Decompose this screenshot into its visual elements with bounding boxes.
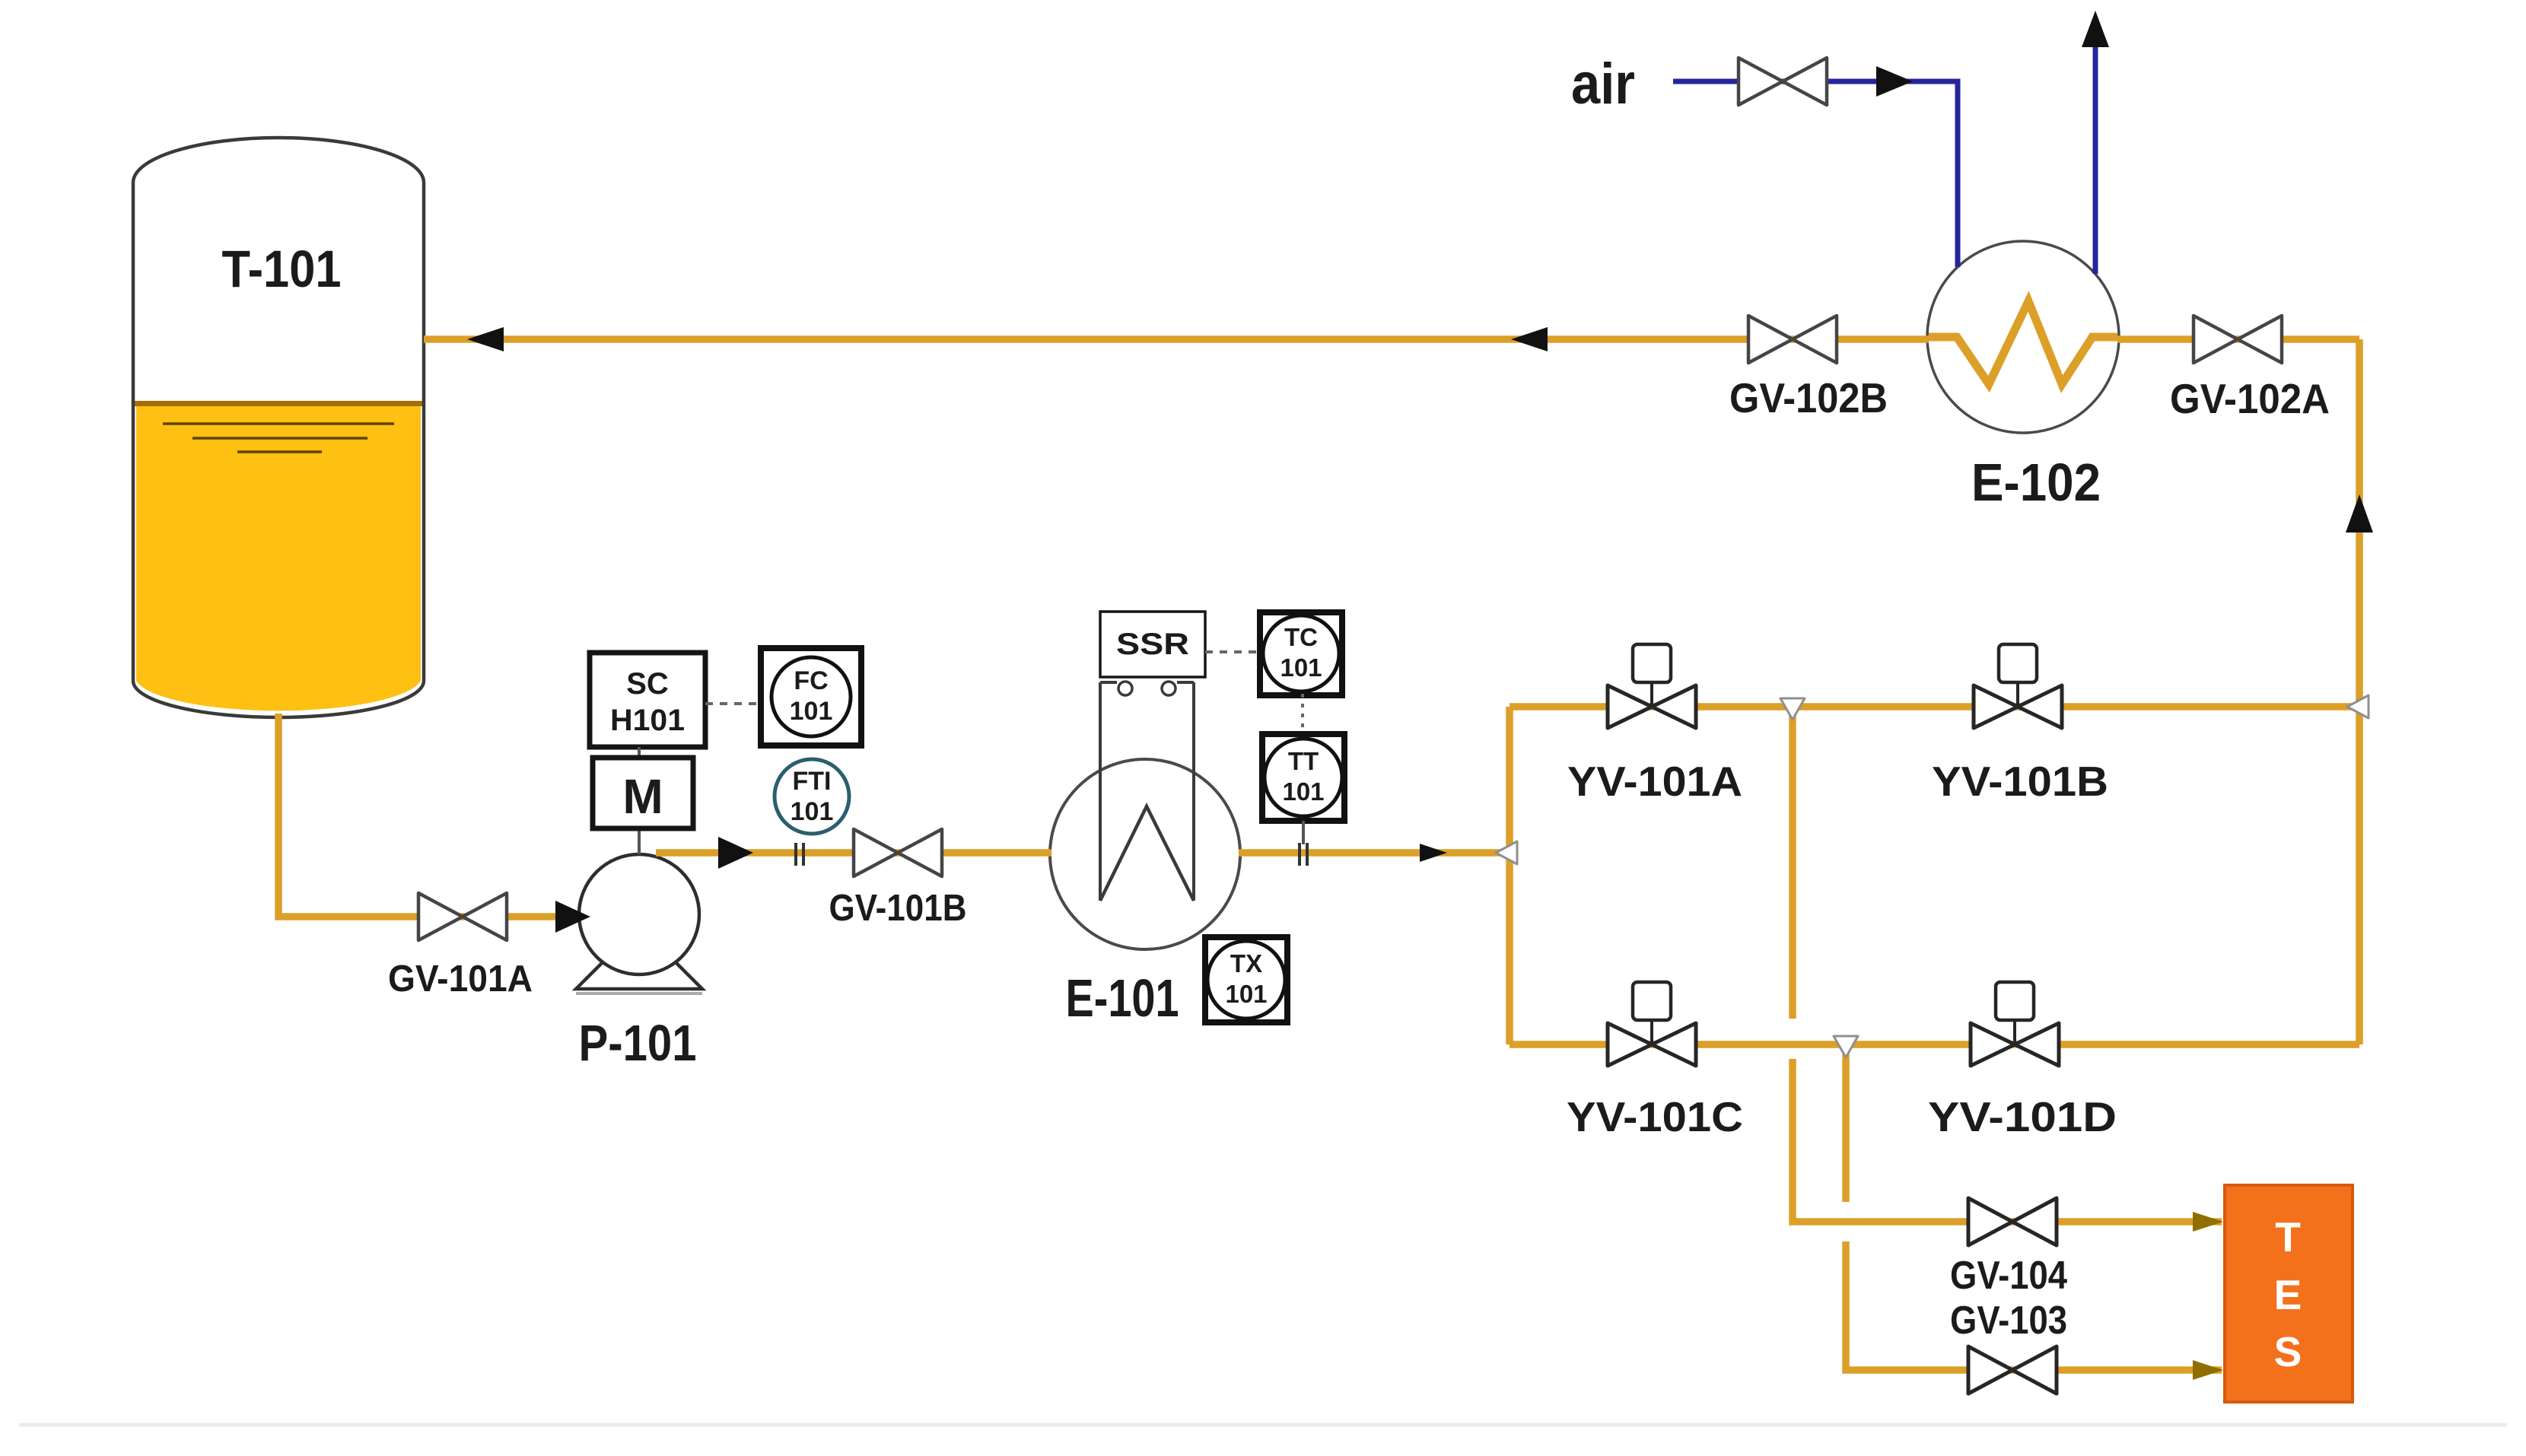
svg-text:FC: FC: [794, 666, 828, 695]
instrument tap under TT: [1298, 843, 1301, 866]
wire: lower branch to right header: [1510, 1041, 2359, 1048]
E-102 coil: [1929, 301, 2117, 384]
svg-text:YV-101B: YV-101B: [1932, 758, 2108, 805]
svg-text:GV-104: GV-104: [1950, 1254, 2067, 1298]
valve GV-103: [1950, 1299, 2067, 1394]
page separator line: [19, 1423, 2507, 1427]
instrument FTI 101: [775, 759, 849, 834]
arrow into TES upper: [2193, 1212, 2223, 1232]
svg-text:TT: TT: [1288, 747, 1319, 775]
pump P-101: [576, 854, 702, 1072]
instrument FC 101: [761, 648, 861, 745]
controller box SSR: [1100, 612, 1205, 677]
svg-text:YV-101A: YV-101A: [1567, 758, 1742, 805]
svg-text:YV-101D: YV-101D: [1928, 1093, 2117, 1140]
svg-text:SC: SC: [626, 667, 669, 701]
air inlet line: [1673, 81, 1958, 267]
svg-text:E-101: E-101: [1066, 968, 1179, 1028]
wire: SSR to TC dashed: [1205, 650, 1261, 653]
svg-text:E: E: [2274, 1271, 2302, 1318]
controller box SC H101: [590, 653, 705, 747]
svg-text:101: 101: [1280, 653, 1322, 682]
vent line from E-102: [2093, 42, 2098, 274]
wire: upper branch to right header: [1510, 703, 2359, 711]
wire: E-101 outlet to junction: [1239, 849, 1505, 857]
svg-text:T-101: T-101: [222, 240, 342, 298]
svg-text:FTI: FTI: [793, 767, 832, 796]
valve GV-102B: [1729, 316, 1888, 421]
svg-text:T: T: [2275, 1213, 2301, 1260]
instrument TC 101: [1260, 612, 1342, 695]
svg-text:GV-101A: GV-101A: [388, 958, 533, 1000]
svg-text:P-101: P-101: [579, 1015, 697, 1072]
valve GV-104: [1950, 1198, 2067, 1298]
wire: SC to FC dashed: [705, 702, 761, 705]
arrow into TES lower: [2193, 1360, 2223, 1380]
wire: TC to TT dotted: [1301, 694, 1304, 734]
TES storage block: [2225, 1185, 2353, 1402]
instrument tap under FTI: [794, 843, 797, 866]
svg-text:GV-102A: GV-102A: [2170, 375, 2330, 422]
arrow up right header: [2346, 494, 2373, 532]
wire: pump outlet to E-101: [656, 849, 1051, 857]
junction node J4: [1834, 1036, 1858, 1057]
instrument TX 101: [1205, 937, 1287, 1022]
svg-text:GV-102B: GV-102B: [1729, 374, 1888, 421]
arrow air line: [1876, 66, 1913, 97]
wire: E-102 to GV-102A corner: [2117, 335, 2359, 343]
instrument TT 101: [1262, 734, 1344, 821]
svg-text:101: 101: [791, 797, 834, 826]
svg-text:S: S: [2274, 1328, 2302, 1375]
arrow into tank: [467, 327, 504, 351]
valve YV-101C: [1567, 982, 1743, 1140]
valve GV-101B: [829, 829, 967, 929]
arrow vent tip: [2082, 11, 2109, 47]
svg-text:101: 101: [1225, 980, 1267, 1008]
svg-text:M: M: [622, 769, 663, 824]
wire: return line to tank: [424, 335, 1929, 343]
svg-text:E-102: E-102: [1971, 453, 2101, 512]
junction node J2: [1780, 698, 1805, 720]
wire: junction vertical manifold: [1506, 707, 1513, 1044]
arrow on return line: [1511, 327, 1548, 351]
junction node J3: [2347, 695, 2369, 718]
svg-text:TX: TX: [1230, 949, 1262, 978]
svg-text:air: air: [1571, 52, 1635, 116]
svg-text:YV-101C: YV-101C: [1567, 1093, 1743, 1140]
svg-text:H101: H101: [610, 704, 685, 737]
junction node J1: [1496, 841, 1517, 864]
motor box M: [593, 747, 693, 854]
valve YV-101B: [1932, 644, 2108, 805]
wire: TT stem to pipe: [1302, 821, 1305, 844]
svg-text:TC: TC: [1284, 623, 1318, 651]
arrow E-101 outlet: [1420, 844, 1447, 862]
wire: tank outlet down and to pump: [278, 714, 571, 917]
arrow pump outlet: [718, 837, 753, 869]
wire: J4 drop to GV-103 line (with hop gap): [1842, 1050, 1850, 1202]
valve GV-102A: [2170, 316, 2330, 422]
heater E-101: [1050, 682, 1240, 1028]
valve air inlet: [1571, 52, 1827, 116]
wire: J2 drop to GV-104 line (with hop gap): [1789, 715, 1796, 1019]
heat exchanger E-102: [1927, 241, 2119, 512]
valve YV-101A: [1567, 644, 1742, 805]
svg-text:101: 101: [1282, 777, 1324, 806]
valve YV-101D: [1928, 982, 2117, 1140]
tank T-101: [133, 138, 424, 717]
valve GV-101A: [388, 893, 533, 1000]
arrow into pump: [555, 901, 590, 933]
svg-text:GV-103: GV-103: [1950, 1299, 2067, 1343]
wire: right header vertical: [2356, 339, 2363, 1044]
svg-text:SSR: SSR: [1116, 628, 1189, 661]
svg-text:GV-101B: GV-101B: [829, 888, 967, 929]
svg-text:101: 101: [790, 697, 833, 726]
E-101 element: [1099, 682, 1102, 901]
